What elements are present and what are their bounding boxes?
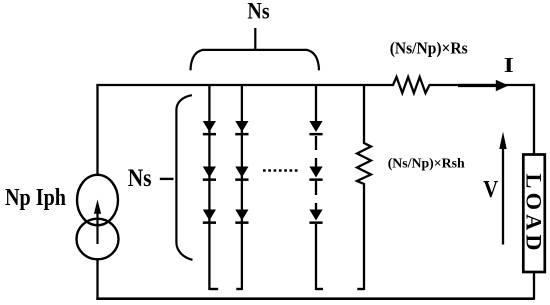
svg-text:(Ns/Np)×Rsh: (Ns/Np)×Rsh xyxy=(388,157,465,172)
svg-text:I: I xyxy=(504,53,514,77)
svg-text:Ns: Ns xyxy=(128,163,152,192)
svg-text:Np Iph: Np Iph xyxy=(5,184,66,211)
svg-text:(Ns/Np)×Rs: (Ns/Np)×Rs xyxy=(390,38,468,57)
svg-text:V: V xyxy=(483,176,498,203)
svg-text:Ns: Ns xyxy=(247,0,269,24)
